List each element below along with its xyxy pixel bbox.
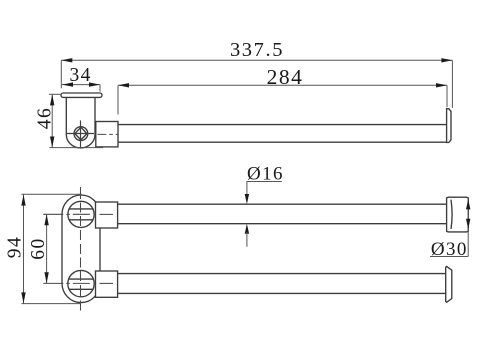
dimension 337.5 right extension line — [451, 60, 453, 108]
dimension O30 underline — [430, 256, 468, 258]
post 1 circle — [68, 201, 94, 227]
dimension 94 top arrow — [21, 195, 25, 206]
dimension 46 top extension line — [49, 93, 61, 95]
dimension O30 up arrow — [466, 199, 470, 209]
dimension 337.5 left arrow — [61, 58, 72, 62]
bracket body left edge — [65, 98, 67, 135]
screw vertical centerline — [80, 120, 82, 147]
dimension 337.5 right arrow — [441, 58, 452, 62]
dimension 60 line — [46, 214, 48, 283]
svg-text:94: 94 — [4, 236, 25, 259]
post 2 upper chord — [69, 278, 94, 280]
dimension 46 bottom arrow — [50, 137, 54, 148]
dimension 284 right extension line — [446, 85, 448, 107]
dimension 34 left arrow — [62, 82, 73, 86]
bar end cap (side view) — [447, 109, 451, 143]
bar bottom line (side view) — [118, 141, 447, 143]
dimension 34 right arrow — [89, 82, 100, 86]
post 1 horizontal centerline — [43, 213, 114, 215]
holder box centerline — [97, 133, 117, 135]
dimension 46 line — [51, 94, 53, 147]
posts vertical centerline — [80, 187, 82, 313]
holder box 1 (plan) — [96, 202, 118, 228]
holder box 2 (plan) — [96, 271, 118, 297]
dimension 60 top arrow — [44, 214, 48, 225]
dimension 94 top extension line — [21, 193, 81, 195]
post 1 lower chord — [69, 219, 94, 221]
dimension 46 bottom extension line — [49, 147, 103, 149]
dimension 337.5 line — [61, 59, 452, 61]
dimension 34 right extension line — [99, 85, 101, 92]
dimension O16 down arrow — [245, 194, 249, 204]
bar 1 top line — [118, 203, 447, 205]
dimension 284 right arrow — [436, 83, 447, 87]
bar 2 top line — [118, 273, 447, 275]
svg-text:337.5: 337.5 — [230, 39, 284, 61]
post 2 horizontal centerline — [43, 282, 114, 284]
bar 1 end knob flange lip — [451, 200, 452, 229]
dimension 60 bottom arrow — [44, 272, 48, 283]
dimension 94 bottom arrow — [21, 292, 25, 303]
post 2 lower chord — [69, 288, 94, 290]
dimension 46 top arrow — [50, 94, 54, 105]
dimension 94 line — [23, 195, 25, 304]
dimension 284 left arrow — [118, 83, 129, 87]
dimension O16 upper leader — [246, 182, 248, 197]
dimension O30 line — [467, 199, 469, 257]
dimension 284 left extension line — [117, 85, 119, 114]
dimension 284 line — [118, 84, 447, 86]
holder box 2 centerline — [100, 282, 114, 284]
dimension O16 underline — [246, 181, 281, 183]
svg-text:46: 46 — [35, 107, 56, 130]
svg-text:284: 284 — [267, 65, 304, 89]
bracket body bottom arc — [66, 135, 95, 148]
post 1 upper chord — [69, 208, 94, 210]
svg-text:Ø16: Ø16 — [247, 163, 284, 184]
dimension 34 line — [62, 84, 100, 86]
mount capsule outline — [62, 195, 100, 303]
bracket body right edge — [94, 98, 96, 135]
svg-text:Ø30: Ø30 — [431, 239, 468, 260]
svg-text:60: 60 — [28, 237, 49, 260]
bar 2 bottom line — [118, 292, 447, 294]
dimension O30 down arrow — [466, 219, 470, 229]
dimension O16 up arrow — [245, 224, 249, 234]
bar holder box (side view) — [96, 122, 118, 147]
screw head circle — [74, 127, 88, 141]
bar 1 bottom line — [118, 223, 447, 225]
bar 1 end knob (plan) — [447, 197, 469, 232]
wall flange plate — [61, 93, 102, 97]
screw horizontal centerline — [66, 133, 94, 135]
holder box 1 centerline — [100, 213, 114, 215]
screw cross diamond — [75, 127, 87, 140]
post 2 circle — [68, 270, 94, 296]
dimension 337.5 left extension line — [60, 60, 62, 88]
dimension O16 lower leader — [246, 232, 248, 247]
svg-text:34: 34 — [70, 65, 92, 86]
dimension 94 bottom extension line — [21, 303, 81, 305]
bar 2 end disc (plan) — [446, 266, 452, 302]
bar top line (side view) — [118, 124, 447, 126]
